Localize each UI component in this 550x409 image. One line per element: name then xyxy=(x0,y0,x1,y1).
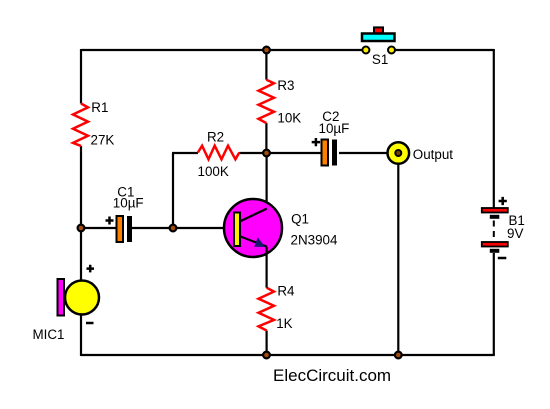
svg-text:100K: 100K xyxy=(198,164,229,179)
svg-text:10K: 10K xyxy=(277,111,301,126)
svg-text:Q1: Q1 xyxy=(291,212,309,227)
wire MIC1 to ground rail xyxy=(80,315,82,357)
wire R3 bottom to node xyxy=(265,123,267,153)
microphone MIC1 xyxy=(33,265,100,342)
switch S1 xyxy=(362,27,395,67)
node dot R2 branch / base xyxy=(170,225,177,232)
wire output jack to ground rail xyxy=(397,164,399,355)
wire collector vertical xyxy=(266,153,268,209)
svg-text:R2: R2 xyxy=(207,130,224,145)
wire node A to C1 xyxy=(81,227,117,229)
wire C1 to base node xyxy=(132,227,234,229)
svg-text:S1: S1 xyxy=(372,52,388,67)
node dot R4 / ground rail xyxy=(263,352,270,359)
svg-text:ElecCircuit.com: ElecCircuit.com xyxy=(273,366,391,385)
wire R4 to ground rail xyxy=(266,331,268,356)
wire R2 left branch vertical xyxy=(172,153,174,228)
svg-text:10µF: 10µF xyxy=(113,195,144,210)
wire R2 left stub xyxy=(172,152,198,154)
wire left rail above R1 xyxy=(80,49,82,104)
wire R3 top stub xyxy=(265,49,267,80)
node dot output / ground rail xyxy=(395,352,402,359)
wire right rail lower (battery - to ground rail) xyxy=(493,253,495,355)
wire C2 to output jack xyxy=(339,152,387,154)
capacitor C1 xyxy=(106,185,144,242)
battery B1 xyxy=(482,197,525,258)
wire bottom ground rail xyxy=(81,354,495,356)
transistor Q1 xyxy=(224,199,338,288)
svg-text:R3: R3 xyxy=(277,78,294,93)
svg-text:27K: 27K xyxy=(91,132,115,147)
resistor R1 xyxy=(73,100,114,147)
svg-text:Output: Output xyxy=(413,147,453,162)
wire top right (switch to right rail) xyxy=(395,49,495,51)
wire node to C2 xyxy=(266,152,321,154)
svg-text:R1: R1 xyxy=(91,100,108,115)
output jack xyxy=(388,142,454,164)
svg-text:1K: 1K xyxy=(276,316,292,331)
resistor R3 xyxy=(259,78,302,125)
svg-text:9V: 9V xyxy=(507,226,523,241)
svg-text:MIC1: MIC1 xyxy=(33,327,65,342)
node dot V+ / R3 top xyxy=(263,47,270,54)
wire R2 right to collector node xyxy=(239,152,267,154)
wire left rail R1 to MIC1 xyxy=(80,146,82,281)
resistor R2 xyxy=(198,130,240,179)
wire right rail upper (to battery +) xyxy=(493,49,495,208)
node dot R1 / C1 xyxy=(78,225,85,232)
resistor R4 xyxy=(259,283,296,331)
svg-text:R4: R4 xyxy=(277,283,295,298)
wire top left (V+ rail to switch) xyxy=(81,49,363,51)
node dot collector / R2 / C2 xyxy=(263,150,270,157)
svg-text:10µF: 10µF xyxy=(319,121,350,136)
capacitor C2 xyxy=(312,109,350,166)
svg-text:2N3904: 2N3904 xyxy=(291,233,338,248)
